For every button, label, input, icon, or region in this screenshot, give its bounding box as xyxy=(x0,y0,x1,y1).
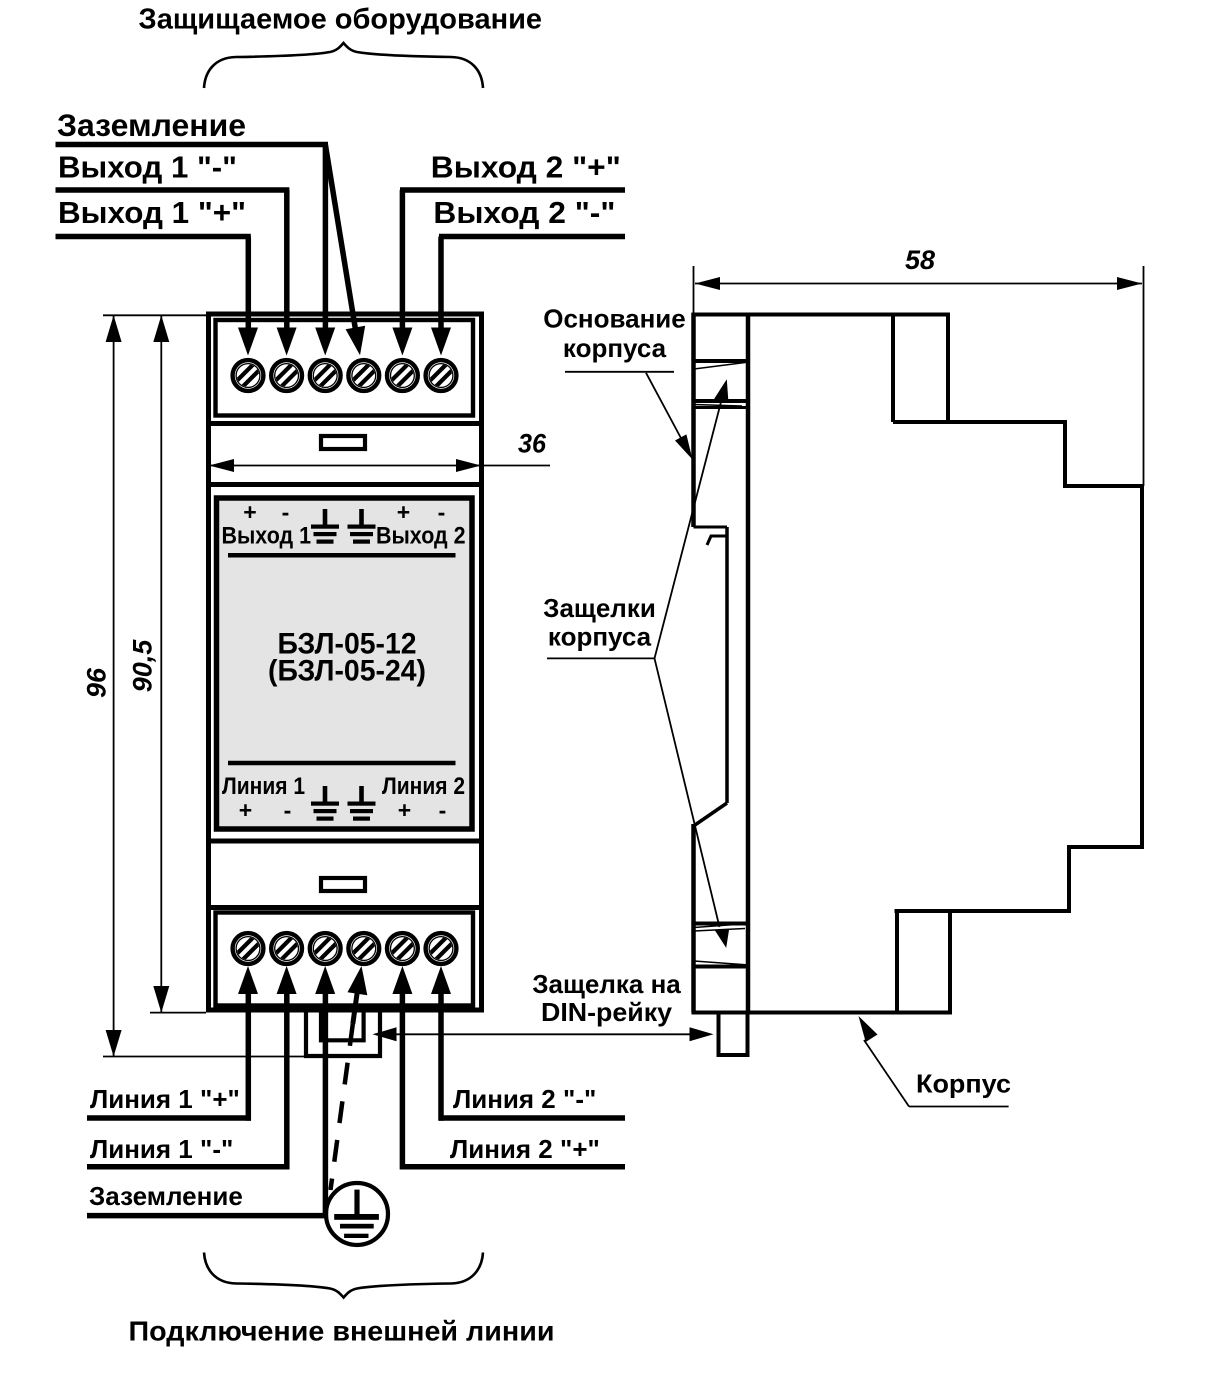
svg-text:96: 96 xyxy=(82,667,112,698)
wire: underline xyxy=(56,187,290,193)
svg-text:корпуса: корпуса xyxy=(563,333,667,363)
wire to terminal 5 xyxy=(400,190,406,333)
wire to terminal 4 (diagonal) xyxy=(325,145,355,329)
svg-text:90,5: 90,5 xyxy=(128,639,158,693)
svg-text:Линия 1 "+": Линия 1 "+" xyxy=(90,1084,240,1114)
svg-text:Выход 1 "+": Выход 1 "+" xyxy=(58,195,246,230)
wire to terminal 3 xyxy=(323,145,329,334)
svg-text:Защелки: Защелки xyxy=(543,593,656,623)
wire: underline xyxy=(56,234,251,240)
svg-text:Защищаемое оборудование: Защищаемое оборудование xyxy=(139,4,543,36)
DIN latch outer (front view) xyxy=(306,1012,380,1056)
panel rule bottom xyxy=(228,761,456,766)
svg-text:DIN-рейку: DIN-рейку xyxy=(541,997,673,1027)
svg-text:-: - xyxy=(438,499,446,525)
label panel (grey) xyxy=(217,498,473,829)
body bottom block inner lines xyxy=(895,911,899,1013)
wire from terminal 3 to earth xyxy=(323,990,329,1218)
leader to top case latch xyxy=(655,402,722,658)
side view: body (корпус) outline xyxy=(748,315,1142,1013)
terminal screws top xyxy=(233,360,264,391)
case latch hatch top 1 xyxy=(692,359,751,363)
DIN clip top horizontal xyxy=(694,526,728,529)
leader to base plate xyxy=(646,373,682,440)
wire: underline to earth circle xyxy=(87,1213,328,1219)
separator above bottom terminals xyxy=(206,905,484,910)
svg-text:Выход 1: Выход 1 xyxy=(222,523,312,550)
wire: underline xyxy=(400,1164,625,1170)
svg-text:Основание: Основание xyxy=(543,303,686,333)
wire: underline xyxy=(87,1115,251,1121)
wire: underline xyxy=(439,1115,625,1121)
dim 58 line xyxy=(695,283,1142,285)
ground symbol panel bottom 2 xyxy=(348,786,376,821)
body top block inner lines xyxy=(891,315,895,423)
svg-text:Линия 2 "+": Линия 2 "+" xyxy=(450,1134,600,1164)
top terminal box xyxy=(216,320,474,416)
leader to body xyxy=(864,1040,909,1107)
extension line 96 bottom xyxy=(103,1056,310,1058)
svg-text:Линия 1: Линия 1 xyxy=(222,773,305,800)
leader line DIN latch (double arrow) xyxy=(394,1033,695,1035)
svg-text:Выход 2 "-": Выход 2 "-" xyxy=(433,195,615,230)
separator under top terminals xyxy=(206,421,484,426)
svg-text:+: + xyxy=(397,499,410,525)
DIN clip right edge xyxy=(725,527,729,803)
wire tail terminal 4 (solid) xyxy=(353,991,358,1024)
svg-text:Защелка на: Защелка на xyxy=(532,969,681,999)
case latch hatch bottom 2 xyxy=(694,961,749,965)
arrowhead bottom terminal 3 xyxy=(315,966,335,994)
side view: dim 58 extension left xyxy=(693,266,695,314)
svg-text:Выход 2 "+": Выход 2 "+" xyxy=(431,150,621,185)
dim 90,5 line xyxy=(160,315,162,1012)
ground symbol panel top 2 xyxy=(348,509,376,544)
wire: ground label underline xyxy=(56,142,329,148)
arrowhead terminal 5 xyxy=(392,328,412,356)
svg-text:+: + xyxy=(239,797,252,823)
side view: dim 58 extension right xyxy=(1143,266,1145,486)
extension line 90,5 bottom xyxy=(150,1012,206,1014)
arrowhead bottom terminal 6 xyxy=(431,966,451,994)
terminal screws bottom xyxy=(233,933,264,964)
wire: underline xyxy=(87,1164,290,1170)
DIN rail latch tab (side view) xyxy=(719,1013,748,1056)
slot window top xyxy=(321,436,365,449)
arrowhead bottom terminal 2 xyxy=(277,966,297,994)
DIN clip notch xyxy=(707,536,727,545)
svg-text:-: - xyxy=(439,797,447,823)
protective earth symbol circle xyxy=(326,1183,388,1245)
svg-text:-: - xyxy=(284,797,292,823)
wire to terminal 2 xyxy=(284,190,290,333)
arrowhead bottom terminal 4 (tilted) xyxy=(348,966,368,995)
arrowhead terminal 1 xyxy=(238,328,258,356)
arrowhead bottom terminal 1 xyxy=(238,966,258,994)
wire: underline xyxy=(400,187,625,193)
svg-text:Линия 2: Линия 2 xyxy=(382,773,465,800)
svg-text:+: + xyxy=(398,797,411,823)
wire terminal 4 dashed to earth symbol xyxy=(331,1024,353,1190)
svg-text:Заземление: Заземление xyxy=(89,1181,243,1211)
wire from terminal 5 xyxy=(400,990,406,1170)
svg-text:(БЗЛ-05-24): (БЗЛ-05-24) xyxy=(268,655,426,688)
svg-text:Выход 2: Выход 2 xyxy=(376,523,466,550)
arrowhead terminal 2 xyxy=(277,328,297,356)
svg-text:Заземление: Заземление xyxy=(57,107,246,143)
bottom terminal box xyxy=(216,913,474,1006)
extension line top xyxy=(103,314,206,316)
arrowhead bottom terminal 5 xyxy=(392,966,412,994)
wire from terminal 1 xyxy=(246,990,252,1121)
wire to terminal 6 xyxy=(438,237,444,334)
arrowhead terminal 4 (tilted) xyxy=(346,326,366,356)
brace top xyxy=(204,43,483,88)
wire from terminal 6 xyxy=(438,990,444,1121)
svg-text:58: 58 xyxy=(905,245,935,275)
slot window bottom xyxy=(321,878,365,891)
case latch hatch bottom 1 xyxy=(692,922,751,926)
device front view outline xyxy=(209,314,482,1010)
svg-text:Линия 2 "-": Линия 2 "-" xyxy=(453,1084,596,1114)
DIN clip bottom diagonal xyxy=(694,803,728,826)
svg-text:+: + xyxy=(243,499,256,525)
svg-text:Выход 1 "-": Выход 1 "-" xyxy=(58,150,237,185)
wire from terminal 2 xyxy=(284,990,290,1170)
ground symbol panel top 1 xyxy=(311,509,339,544)
DIN latch inner (front view) xyxy=(321,1012,364,1040)
leader to bottom case latch xyxy=(655,658,720,927)
svg-text:Линия 1 "-": Линия 1 "-" xyxy=(90,1134,233,1164)
svg-text:корпуса: корпуса xyxy=(548,621,652,651)
svg-text:Подключение внешней линии: Подключение внешней линии xyxy=(129,1316,555,1347)
dim 96 line xyxy=(113,315,115,1056)
svg-text:36: 36 xyxy=(518,429,547,459)
brace bottom xyxy=(204,1253,483,1298)
panel rule top xyxy=(228,553,456,558)
wire to terminal 1 xyxy=(246,237,252,334)
svg-text:-: - xyxy=(282,499,290,525)
arrowhead terminal 3 xyxy=(315,328,335,356)
separator above label panel xyxy=(206,482,484,487)
arrowhead terminal 6 xyxy=(431,328,451,356)
dimension 36 line xyxy=(209,465,481,467)
separator below label panel xyxy=(206,839,484,844)
side view: base plate (основание корпуса) xyxy=(691,313,696,527)
wire: underline xyxy=(439,234,625,240)
svg-text:Корпус: Корпус xyxy=(916,1069,1011,1099)
case latch hatch top 2 xyxy=(692,399,751,403)
base plate left edge lower xyxy=(691,824,696,1013)
ground symbol panel bottom 1 xyxy=(311,786,339,821)
